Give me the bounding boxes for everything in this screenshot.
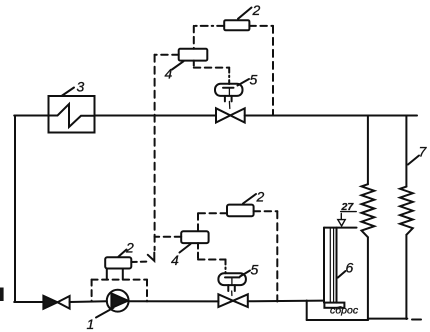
sensor B2 (top outdoor sensor) <box>224 20 249 30</box>
pump controller legs <box>106 269 108 280</box>
dashed: pump sensing bracket <box>92 279 147 281</box>
dash-dot link sensor2 to controller4 (top) <box>194 25 224 27</box>
pump P1 <box>107 290 129 312</box>
sensor B2 (bottom return sensor) <box>227 205 254 217</box>
svg-text:1: 1 <box>87 316 95 332</box>
dashed: sensor2 (bottom) right lead to pipe <box>254 210 278 212</box>
label 1 <box>96 308 114 318</box>
wire: bottom return pipe (wall to check valve) <box>14 301 43 303</box>
arrowhead on control line <box>148 253 155 261</box>
pump controller 2 (bottom-left) <box>105 257 131 268</box>
wire: drop from return pipe to drain collector <box>306 301 308 321</box>
wire: bottom return pipe (check valve to pump) <box>70 300 107 303</box>
valve 5 (bottom): diaphragm tick <box>225 276 240 278</box>
dashed: controller4 (bottom) output to valve actuator <box>197 243 199 259</box>
svg-text:4: 4 <box>171 252 179 268</box>
heat exchanger U3 box <box>49 96 95 133</box>
drain tube 6: top cap and inlet line <box>324 227 357 229</box>
controller U4 (top) <box>179 49 208 61</box>
svg-text:6: 6 <box>346 260 354 276</box>
valve 5 (top): body <box>216 108 230 122</box>
dashed: common control line (vertical) <box>154 55 156 250</box>
label 3 <box>62 88 75 97</box>
check valve (left disc filled) <box>43 296 57 309</box>
label 5 (bottom) <box>240 271 250 277</box>
wire: radiator riser 2 <box>405 116 407 187</box>
wire: radiator riser 1 <box>367 116 369 185</box>
dashed: sensor2 (top) right lead to pipe <box>249 25 273 27</box>
wire: drain collector bottom line <box>307 319 368 321</box>
label 7 <box>408 156 419 165</box>
label 2 (bottom) <box>243 194 256 204</box>
svg-text:5: 5 <box>251 262 259 278</box>
wire: bottom return pipe (valve to drop) <box>248 300 324 303</box>
control valve 5 (bottom): actuator cap <box>218 273 246 285</box>
drain tube 6: walls <box>323 228 325 303</box>
label 2 (top) <box>238 8 252 19</box>
label 5 (top) <box>238 79 250 86</box>
svg-text:3: 3 <box>77 79 85 95</box>
label 4 (top) <box>172 61 184 69</box>
controller U4 (bottom) <box>181 231 208 243</box>
valve 5 (top): diaphragm tick <box>223 87 234 89</box>
ink blot at left margin <box>0 288 4 302</box>
svg-text:сброс: сброс <box>330 305 359 317</box>
dashed: sensor2 (bottom) left lead <box>198 212 227 214</box>
dashed: pump controller right lead with arrow <box>131 261 149 264</box>
control valve 5 (top): actuator cap <box>215 84 243 96</box>
wire: bottom return pipe (pump to valve) <box>129 300 219 302</box>
wire: top supply pipe (heat exchanger to valve) <box>95 115 217 117</box>
wire: top supply pipe (left of heat exchanger) <box>14 115 48 117</box>
inlet arrow 27 <box>340 214 342 220</box>
label 4 (bottom) <box>180 244 191 253</box>
valve 5 (bottom): stem <box>227 285 229 291</box>
label 6 <box>338 271 346 278</box>
wire: collector end dash <box>412 319 421 321</box>
dashed: controller4 (top) left lead <box>155 54 179 56</box>
svg-text:5: 5 <box>250 72 258 88</box>
wire: left riser <box>14 116 16 303</box>
svg-text:4: 4 <box>165 66 173 82</box>
radiator 7b zigzag <box>400 187 413 235</box>
drain tube 6: foot <box>324 303 344 308</box>
label 2 (pump) <box>119 250 127 257</box>
heat exchanger U3 coil <box>49 104 95 127</box>
svg-text:2: 2 <box>256 189 265 205</box>
dashed drop to controller 4 (top) <box>193 26 195 49</box>
valve 5 (top): stem <box>224 96 226 102</box>
radiator 7a zigzag <box>362 184 375 237</box>
wire: top supply pipe (valve to risers) <box>245 115 417 117</box>
svg-text:2: 2 <box>252 2 261 18</box>
dashed: controller4 (top) output to valve actuator <box>193 61 195 68</box>
svg-text:7: 7 <box>419 144 428 160</box>
valve 5 (bottom): body <box>218 294 233 307</box>
svg-text:2: 2 <box>125 240 134 256</box>
dashed: controller4 (bottom) left lead to common line <box>155 236 182 238</box>
